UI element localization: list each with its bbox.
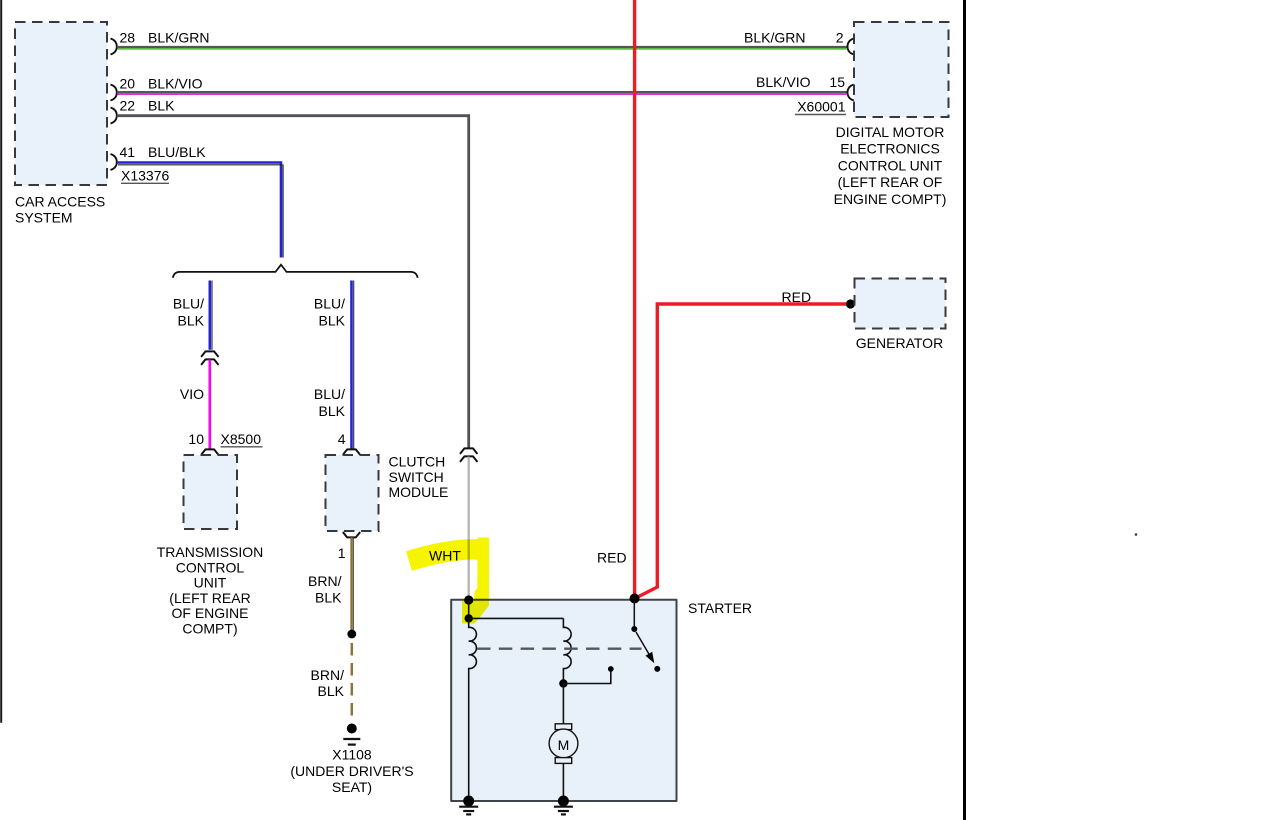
svg-text:BRN/: BRN/: [308, 573, 342, 589]
svg-text:M: M: [558, 737, 570, 753]
box: CLUTCH SWITCH MODULE: [326, 455, 379, 531]
dashed mechanical link: [477, 648, 642, 650]
connector bracket pin 28 (X13376): [111, 39, 117, 55]
wire: switch feed drop: [633, 601, 635, 626]
svg-text:BLU/: BLU/: [314, 296, 345, 312]
wire: motor to ground: [562, 763, 564, 801]
svg-text:CONTROL: CONTROL: [176, 559, 245, 575]
svg-text:COMPT): COMPT): [182, 621, 237, 637]
svg-text:SYSTEM: SYSTEM: [15, 210, 73, 226]
node: solenoid feed junction: [465, 614, 473, 622]
svg-text:X1108: X1108: [332, 747, 372, 763]
wire BLU/BLK right branch: [352, 281, 354, 449]
connector label X13376: [121, 168, 169, 184]
svg-text:GENERATOR: GENERATOR: [856, 335, 943, 351]
wire label BRN/BLK (lower): [311, 667, 345, 699]
connector bracket pin 10 at TCU: [202, 449, 218, 454]
label X1108 (UNDER DRIVER'S SEAT): [290, 747, 413, 796]
svg-text:RED: RED: [782, 289, 812, 305]
svg-text:BLK/GRN: BLK/GRN: [148, 30, 209, 46]
svg-text:TRANSMISSION: TRANSMISSION: [157, 544, 264, 560]
svg-text:DIGITAL MOTOR: DIGITAL MOTOR: [836, 124, 945, 140]
svg-text:UNIT: UNIT: [194, 575, 227, 591]
wire BRN/BLK (solid): [352, 538, 354, 631]
wire VIO: [208, 360, 211, 449]
connector bracket pin 1 (clutch module exit): [343, 533, 359, 538]
svg-text:BLU/BLK: BLU/BLK: [148, 144, 206, 160]
connector bracket pin 22: [111, 108, 117, 124]
box: GENERATOR: [855, 279, 946, 329]
svg-text:X8500: X8500: [221, 431, 262, 447]
svg-text:BLK: BLK: [319, 403, 346, 419]
motor M1 (starter motor): [549, 724, 578, 764]
svg-text:15: 15: [829, 74, 845, 90]
node: switch contact dot: [654, 666, 660, 672]
coil L2 (pull-in winding): [563, 618, 571, 683]
svg-text:X60001: X60001: [797, 99, 845, 115]
label CAR ACCESS SYSTEM: [15, 194, 105, 226]
svg-text:ELECTRONICS: ELECTRONICS: [840, 141, 940, 157]
svg-text:BLK: BLK: [315, 590, 342, 606]
svg-text:SWITCH: SWITCH: [389, 469, 444, 485]
svg-text:BLK/GRN: BLK/GRN: [744, 30, 805, 46]
svg-text:BLK/VIO: BLK/VIO: [148, 76, 203, 92]
left page border line: [0, 0, 2, 722]
stray mark dot: [1135, 533, 1138, 536]
svg-text:BLK: BLK: [318, 683, 345, 699]
wire BLK/VIO: [117, 92, 848, 94]
svg-text:10: 10: [188, 431, 204, 447]
node: battery terminal dot at starter top: [630, 594, 640, 604]
svg-text:(UNDER DRIVER'S: (UNDER DRIVER'S: [290, 763, 413, 779]
wire WHT (to starter): [468, 457, 470, 599]
wire BLK/GRN: [117, 47, 848, 49]
wire: pull-in coil to motor: [562, 684, 564, 724]
splice branch brace: [173, 265, 418, 278]
svg-text:CAR ACCESS: CAR ACCESS: [15, 194, 105, 210]
svg-text:SEAT): SEAT): [332, 779, 372, 795]
svg-text:BLU/: BLU/: [314, 386, 345, 402]
connector bracket pin 20: [111, 85, 117, 101]
wire BLK (pin 22 to starter): [117, 116, 469, 449]
svg-text:22: 22: [120, 98, 136, 114]
wire BLU/BLK (pin 41): [117, 163, 283, 258]
coil L1 (hold-in winding): [469, 618, 477, 801]
label DIGITAL MOTOR ELECTRONICS CONTROL UNIT (LEFT REAR OF ENGINE COMPT): [834, 124, 947, 207]
ground: starter motor (center): [554, 796, 573, 815]
svg-text:4: 4: [338, 431, 346, 447]
wire RED (generator branch): [636, 304, 850, 598]
svg-text:BLK: BLK: [178, 313, 205, 329]
box: CAR ACCESS SYSTEM control unit: [15, 22, 107, 185]
svg-text:CLUTCH: CLUTCH: [389, 454, 446, 470]
svg-text:CONTROL UNIT: CONTROL UNIT: [838, 157, 943, 173]
inline connector on left branch: [202, 351, 218, 364]
svg-text:28: 28: [120, 30, 136, 46]
junction dot on BRN/BLK wire: [347, 630, 356, 639]
svg-text:20: 20: [120, 76, 136, 92]
svg-text:ENGINE COMPT): ENGINE COMPT): [834, 191, 947, 207]
svg-text:STARTER: STARTER: [688, 600, 752, 616]
svg-text:VIO: VIO: [180, 386, 204, 402]
connector bracket pin 4 at clutch switch module: [343, 449, 359, 454]
svg-text:RED: RED: [597, 550, 627, 566]
yellow highlighter stroke over WHT: [409, 538, 489, 624]
svg-text:BLK: BLK: [148, 98, 175, 114]
svg-text:BLU/: BLU/: [173, 296, 204, 312]
svg-text:2: 2: [836, 30, 844, 46]
box: TRANSMISSION CONTROL UNIT: [184, 455, 238, 529]
junction dot at generator: [846, 299, 855, 308]
wire label BLU/BLK (right branch upper): [314, 296, 346, 329]
label TRANSMISSION CONTROL UNIT (LEFT REAR OF ENGINE COMPT): [157, 544, 264, 637]
svg-text:BLK/VIO: BLK/VIO: [756, 74, 811, 90]
right page border line: [963, 0, 966, 820]
connector bracket pin 2 (X60001): [848, 39, 854, 55]
inline connector on BLK/WHT wire: [461, 448, 477, 461]
wire: link to pull-in coil: [469, 617, 564, 619]
svg-text:(LEFT REAR: (LEFT REAR: [169, 590, 250, 606]
svg-text:1: 1: [338, 545, 346, 561]
wire label BLU/BLK (right branch lower): [314, 386, 346, 419]
wire: starter internal top-left drop: [468, 600, 470, 618]
wire label BLU/BLK (left branch): [173, 296, 205, 329]
node: contact stub dot: [608, 666, 614, 672]
svg-text:MODULE: MODULE: [389, 484, 449, 500]
svg-text:BRN/: BRN/: [311, 667, 345, 683]
switch arm with arrowhead: [636, 632, 654, 663]
label CLUTCH SWITCH MODULE: [389, 454, 449, 501]
node: pull-in coil to contact junction: [559, 679, 567, 687]
ground: starter case (left): [459, 796, 478, 815]
wire BRN/BLK (dashed): [351, 643, 354, 719]
wire RED (battery feed, main vertical): [633, 0, 636, 597]
connector bracket pin 15 (X60001): [848, 85, 854, 101]
node: WHT wire junction at starter top: [464, 595, 473, 604]
svg-text:OF ENGINE: OF ENGINE: [171, 605, 248, 621]
connector label X8500: [221, 431, 263, 447]
box: STARTER: [451, 600, 676, 801]
connector label X60001: [795, 99, 846, 115]
svg-text:BLK: BLK: [319, 313, 346, 329]
wire label BRN/BLK (upper): [308, 573, 342, 606]
connector bracket pin 41: [111, 154, 117, 170]
ground X1108: [343, 724, 360, 745]
wire: junction to contact stub: [563, 670, 610, 684]
wire BLU/BLK left branch: [210, 281, 212, 350]
box: DIGITAL MOTOR ELECTRONICS CONTROL UNIT: [854, 22, 949, 117]
svg-text:(LEFT REAR OF: (LEFT REAR OF: [838, 174, 943, 190]
svg-text:41: 41: [120, 144, 136, 160]
svg-text:X13376: X13376: [121, 168, 169, 184]
node: switch pivot dot: [631, 626, 637, 632]
